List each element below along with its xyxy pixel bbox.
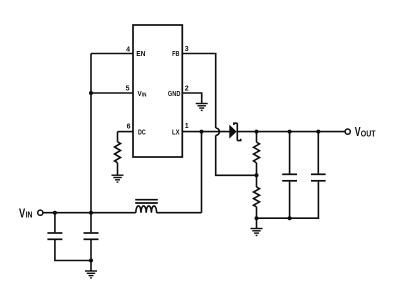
svg-text:OUT: OUT (361, 128, 376, 138)
svg-text:FB: FB (172, 51, 179, 58)
svg-text:EN: EN (136, 51, 145, 58)
svg-text:6: 6 (127, 124, 131, 131)
svg-text:DC: DC (138, 129, 146, 136)
svg-text:IN: IN (26, 210, 33, 220)
svg-text:1: 1 (185, 123, 189, 130)
svg-text:3: 3 (185, 46, 189, 53)
svg-text:2: 2 (185, 86, 189, 93)
svg-text:5: 5 (126, 86, 130, 93)
svg-text:LX: LX (172, 129, 180, 136)
svg-text:4: 4 (126, 47, 130, 54)
svg-text:V: V (19, 205, 25, 220)
svg-text:GND: GND (168, 91, 181, 98)
svg-text:IN: IN (142, 93, 147, 99)
